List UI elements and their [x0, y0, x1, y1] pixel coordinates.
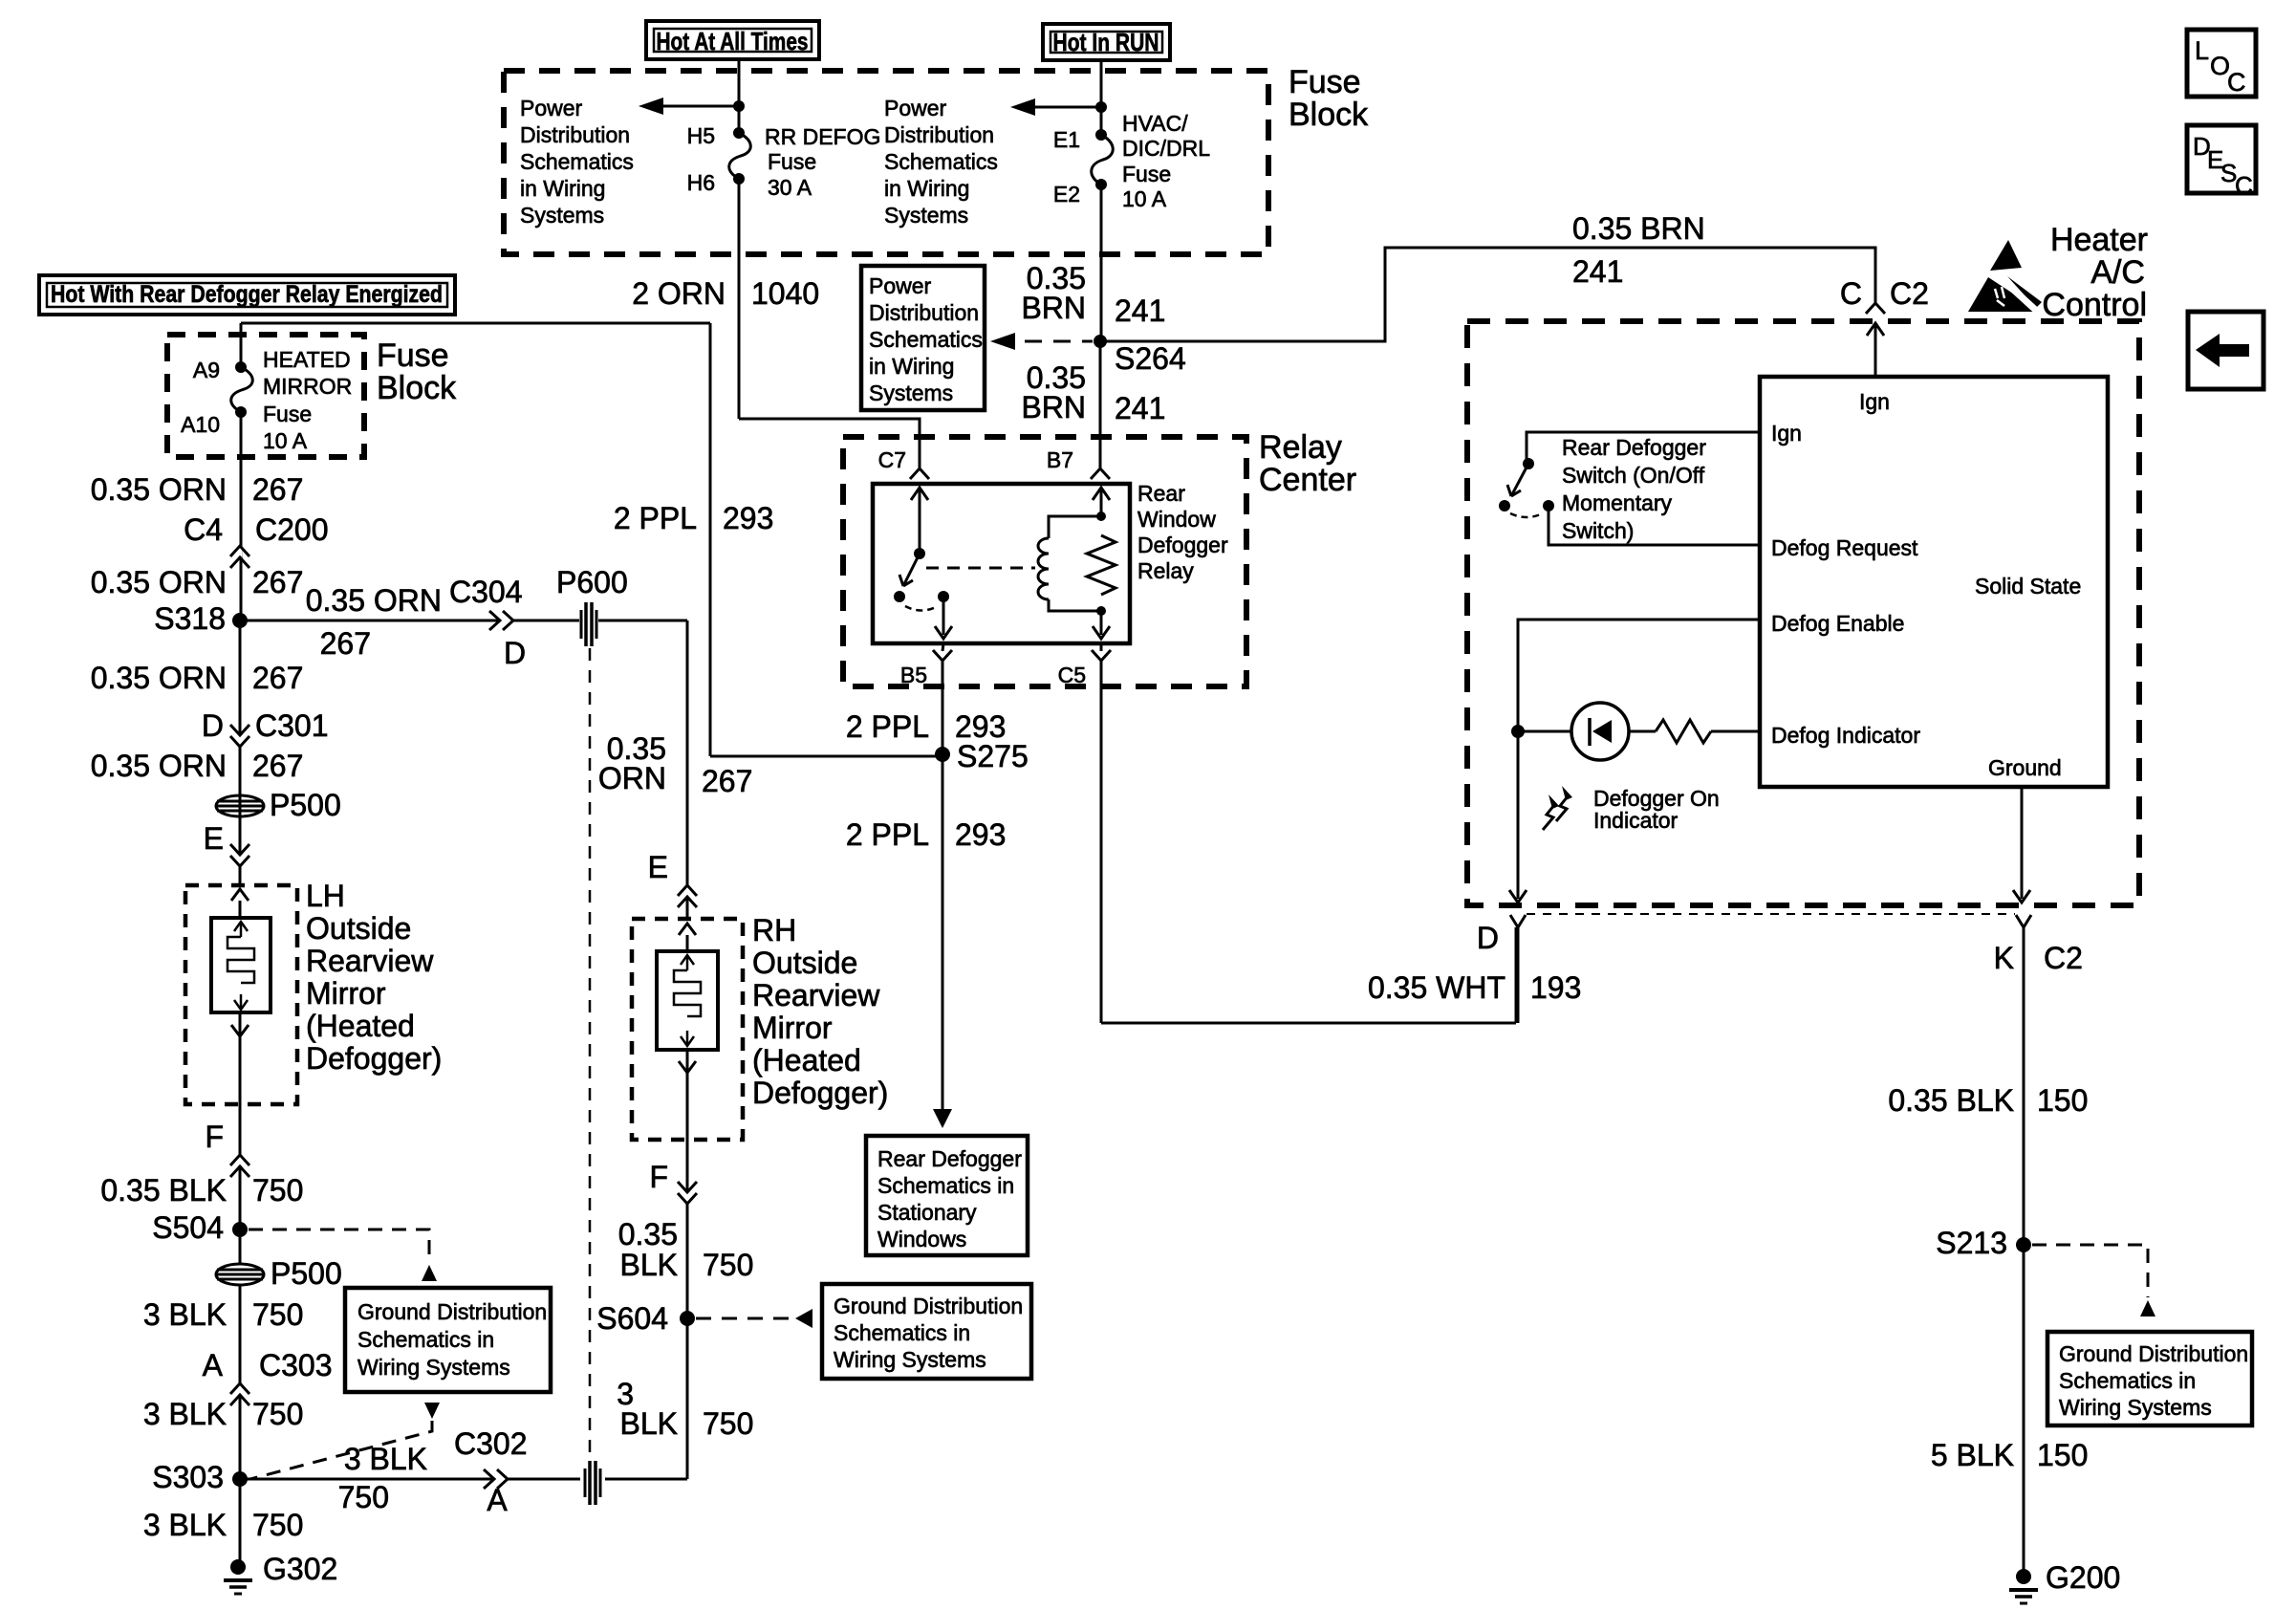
svg-text:S303: S303: [152, 1460, 224, 1494]
svg-text:L: L: [2195, 36, 2209, 65]
svg-text:Block: Block: [377, 370, 457, 406]
svg-text:2 ORN: 2 ORN: [632, 276, 726, 311]
svg-text:Systems: Systems: [869, 381, 953, 405]
svg-text:P500: P500: [271, 1256, 342, 1291]
svg-text:D: D: [202, 708, 224, 743]
svg-text:3 BLK: 3 BLK: [143, 1397, 227, 1431]
svg-text:B5: B5: [900, 663, 927, 687]
svg-text:Ground Distribution: Ground Distribution: [2059, 1341, 2248, 1366]
svg-text:Power: Power: [520, 96, 583, 120]
svg-text:C5: C5: [1058, 663, 1086, 687]
svg-text:267: 267: [252, 661, 303, 695]
svg-text:F: F: [649, 1160, 668, 1194]
svg-text:5 BLK: 5 BLK: [1931, 1438, 2014, 1472]
svg-text:Rear: Rear: [1137, 481, 1185, 506]
svg-text:A10: A10: [181, 412, 220, 437]
svg-text:in Wiring: in Wiring: [520, 176, 605, 201]
svg-text:267: 267: [320, 626, 371, 661]
svg-text:Distribution: Distribution: [869, 300, 979, 325]
svg-text:Defog Enable: Defog Enable: [1771, 611, 1904, 636]
svg-text:0.35 ORN: 0.35 ORN: [91, 661, 227, 695]
svg-text:241: 241: [1115, 391, 1165, 425]
svg-text:Fuse: Fuse: [768, 149, 816, 174]
svg-text:Ground Distribution: Ground Distribution: [834, 1294, 1023, 1318]
svg-text:E2: E2: [1053, 182, 1080, 207]
svg-text:3 BLK: 3 BLK: [344, 1442, 427, 1476]
svg-text:Mirror: Mirror: [306, 976, 386, 1011]
svg-text:267: 267: [252, 565, 303, 599]
svg-text:H6: H6: [687, 170, 715, 195]
svg-text:Fuse: Fuse: [377, 337, 449, 374]
svg-text:750: 750: [703, 1248, 753, 1282]
svg-text:267: 267: [252, 749, 303, 783]
svg-text:RR DEFOG: RR DEFOG: [765, 124, 880, 149]
svg-text:BRN: BRN: [1021, 291, 1086, 325]
svg-text:Systems: Systems: [884, 203, 968, 228]
svg-text:H5: H5: [687, 123, 715, 148]
svg-text:Hot At All Times: Hot At All Times: [657, 27, 809, 55]
svg-text:C: C: [2235, 171, 2253, 200]
svg-text:Window: Window: [1137, 507, 1216, 532]
svg-text:1040: 1040: [751, 276, 819, 311]
svg-text:2 PPL: 2 PPL: [846, 817, 929, 852]
svg-text:0.35 ORN: 0.35 ORN: [91, 749, 227, 783]
svg-text:Rear Defogger: Rear Defogger: [877, 1146, 1022, 1171]
svg-text:Distribution: Distribution: [520, 122, 630, 147]
svg-text:267: 267: [252, 472, 303, 507]
svg-text:C2: C2: [2044, 941, 2083, 975]
svg-text:Hot In RUN: Hot In RUN: [1053, 28, 1159, 56]
svg-text:Rearview: Rearview: [306, 944, 434, 978]
svg-text:HVAC/: HVAC/: [1122, 111, 1188, 136]
svg-text:D: D: [504, 636, 526, 670]
svg-text:HEATED: HEATED: [263, 347, 351, 372]
svg-text:750: 750: [252, 1297, 303, 1332]
svg-text:Wiring Systems: Wiring Systems: [2059, 1395, 2212, 1420]
svg-text:Power: Power: [869, 273, 932, 298]
svg-text:C200: C200: [255, 512, 329, 547]
svg-text:S504: S504: [152, 1210, 224, 1245]
svg-text:Ground: Ground: [1988, 755, 2062, 780]
svg-text:Power: Power: [884, 96, 947, 120]
svg-text:750: 750: [252, 1173, 303, 1207]
svg-text:Mirror: Mirror: [752, 1011, 833, 1045]
svg-text:2 PPL: 2 PPL: [614, 501, 697, 535]
svg-text:Wiring Systems: Wiring Systems: [357, 1355, 510, 1380]
svg-text:BLK: BLK: [620, 1248, 678, 1282]
svg-text:S318: S318: [154, 601, 226, 636]
svg-text:Fuse: Fuse: [1122, 162, 1171, 186]
svg-text:3 BLK: 3 BLK: [143, 1297, 227, 1332]
svg-text:in Wiring: in Wiring: [869, 354, 954, 379]
svg-text:Heater: Heater: [2050, 222, 2148, 258]
svg-text:0.35 BLK: 0.35 BLK: [1888, 1083, 2014, 1118]
svg-text:0.35 WHT: 0.35 WHT: [1368, 970, 1505, 1005]
svg-text:Defog Indicator: Defog Indicator: [1771, 723, 1920, 748]
svg-text:Solid State: Solid State: [1975, 574, 2081, 598]
svg-text:293: 293: [955, 817, 1006, 852]
svg-text:Center: Center: [1259, 462, 1356, 498]
svg-text:G200: G200: [2046, 1560, 2120, 1595]
svg-text:10 A: 10 A: [1122, 186, 1167, 211]
svg-text:G302: G302: [263, 1552, 337, 1586]
svg-text:B7: B7: [1047, 447, 1073, 472]
svg-text:Schematics: Schematics: [520, 149, 634, 174]
svg-text:RH: RH: [752, 913, 796, 947]
svg-text:Momentary: Momentary: [1562, 490, 1673, 515]
svg-text:C4: C4: [184, 512, 223, 547]
svg-text:BLK: BLK: [620, 1406, 678, 1441]
svg-text:Systems: Systems: [520, 203, 604, 228]
svg-text:Wiring Systems: Wiring Systems: [834, 1347, 986, 1372]
svg-text:C302: C302: [454, 1426, 528, 1461]
svg-text:Rearview: Rearview: [752, 978, 880, 1012]
svg-text:Ground Distribution: Ground Distribution: [357, 1299, 547, 1324]
svg-text:0.35 BRN: 0.35 BRN: [1572, 211, 1705, 246]
svg-text:Schematics in: Schematics in: [357, 1327, 494, 1352]
svg-text:A/C: A/C: [2090, 254, 2145, 291]
svg-text:Defog Request: Defog Request: [1771, 535, 1918, 560]
svg-text:Schematics in: Schematics in: [877, 1173, 1014, 1198]
svg-text:in Wiring: in Wiring: [884, 176, 969, 201]
svg-text:Defogger: Defogger: [1137, 533, 1228, 557]
svg-text:193: 193: [1530, 970, 1581, 1005]
svg-text:293: 293: [723, 501, 773, 535]
svg-text:C304: C304: [449, 575, 523, 609]
svg-text:Fuse: Fuse: [1289, 64, 1361, 100]
svg-text:BRN: BRN: [1021, 390, 1086, 424]
svg-text:150: 150: [2037, 1083, 2088, 1118]
svg-text:D: D: [1477, 921, 1499, 955]
svg-text:Outside: Outside: [306, 911, 411, 946]
svg-text:0.35 ORN: 0.35 ORN: [91, 472, 227, 507]
svg-text:(Heated: (Heated: [306, 1009, 415, 1043]
svg-text:241: 241: [1115, 294, 1165, 328]
svg-text:ORN: ORN: [598, 761, 666, 795]
svg-text:DIC/DRL: DIC/DRL: [1122, 136, 1210, 161]
svg-text:Schematics in: Schematics in: [834, 1320, 970, 1345]
svg-text:Defogger): Defogger): [752, 1076, 888, 1110]
svg-text:10 A: 10 A: [263, 428, 308, 453]
svg-text:C303: C303: [259, 1348, 333, 1382]
svg-text:241: 241: [1572, 254, 1623, 289]
svg-text:0.35 ORN: 0.35 ORN: [306, 583, 442, 618]
svg-text:LH: LH: [306, 879, 345, 913]
svg-text:Rear Defogger: Rear Defogger: [1562, 435, 1706, 460]
svg-text:0.35 ORN: 0.35 ORN: [91, 565, 227, 599]
svg-text:A9: A9: [193, 358, 220, 382]
svg-text:E1: E1: [1053, 127, 1080, 152]
svg-text:Indicator: Indicator: [1593, 808, 1679, 833]
svg-text:0.35 BLK: 0.35 BLK: [100, 1173, 227, 1207]
svg-text:Defogger): Defogger): [306, 1041, 442, 1076]
svg-text:Fuse: Fuse: [263, 402, 312, 426]
svg-text:Switch): Switch): [1562, 518, 1634, 543]
svg-text:S213: S213: [1936, 1226, 2007, 1260]
svg-text:Relay: Relay: [1259, 429, 1342, 466]
svg-text:Schematics: Schematics: [869, 327, 983, 352]
svg-text:P600: P600: [556, 565, 628, 599]
svg-text:Schematics in: Schematics in: [2059, 1368, 2196, 1393]
svg-text:K: K: [1994, 941, 2014, 975]
svg-text:C301: C301: [255, 708, 329, 743]
svg-text:150: 150: [2037, 1438, 2088, 1472]
svg-text:C: C: [1840, 276, 1862, 311]
svg-text:Windows: Windows: [877, 1227, 966, 1251]
svg-text:C2: C2: [1890, 276, 1929, 311]
svg-text:Distribution: Distribution: [884, 122, 994, 147]
svg-text:A: A: [203, 1348, 224, 1382]
svg-text:750: 750: [252, 1508, 303, 1542]
svg-text:30 A: 30 A: [768, 175, 812, 200]
svg-text:Stationary: Stationary: [877, 1200, 977, 1225]
svg-text:Block: Block: [1289, 97, 1369, 133]
svg-text:750: 750: [252, 1397, 303, 1431]
svg-text:Schematics: Schematics: [884, 149, 998, 174]
svg-text:0.35: 0.35: [618, 1217, 678, 1251]
svg-text:Outside: Outside: [752, 946, 857, 980]
svg-text:Hot With Rear Defogger Relay E: Hot With Rear Defogger Relay Energized: [51, 281, 443, 308]
svg-text:267: 267: [702, 764, 752, 798]
svg-text:Ign: Ign: [1771, 421, 1802, 446]
svg-text:2 PPL: 2 PPL: [846, 709, 929, 744]
svg-text:Switch (On/Off: Switch (On/Off: [1562, 463, 1705, 488]
svg-text:C: C: [2227, 68, 2246, 97]
svg-text:S264: S264: [1115, 341, 1186, 376]
svg-text:750: 750: [703, 1406, 753, 1441]
svg-text:(Heated: (Heated: [752, 1043, 861, 1077]
svg-text:Relay: Relay: [1137, 558, 1194, 583]
svg-text:F: F: [205, 1120, 224, 1154]
svg-text:C7: C7: [878, 447, 906, 472]
svg-text:S604: S604: [596, 1301, 668, 1336]
svg-text:3 BLK: 3 BLK: [143, 1508, 227, 1542]
svg-text:P500: P500: [270, 788, 341, 822]
svg-text:E: E: [204, 821, 224, 856]
svg-text:E: E: [648, 850, 668, 884]
svg-text:S275: S275: [957, 739, 1029, 773]
svg-text:MIRROR: MIRROR: [263, 374, 352, 399]
svg-text:Ign: Ign: [1859, 389, 1890, 414]
svg-text:Control: Control: [2042, 287, 2147, 323]
svg-text:750: 750: [338, 1480, 389, 1514]
